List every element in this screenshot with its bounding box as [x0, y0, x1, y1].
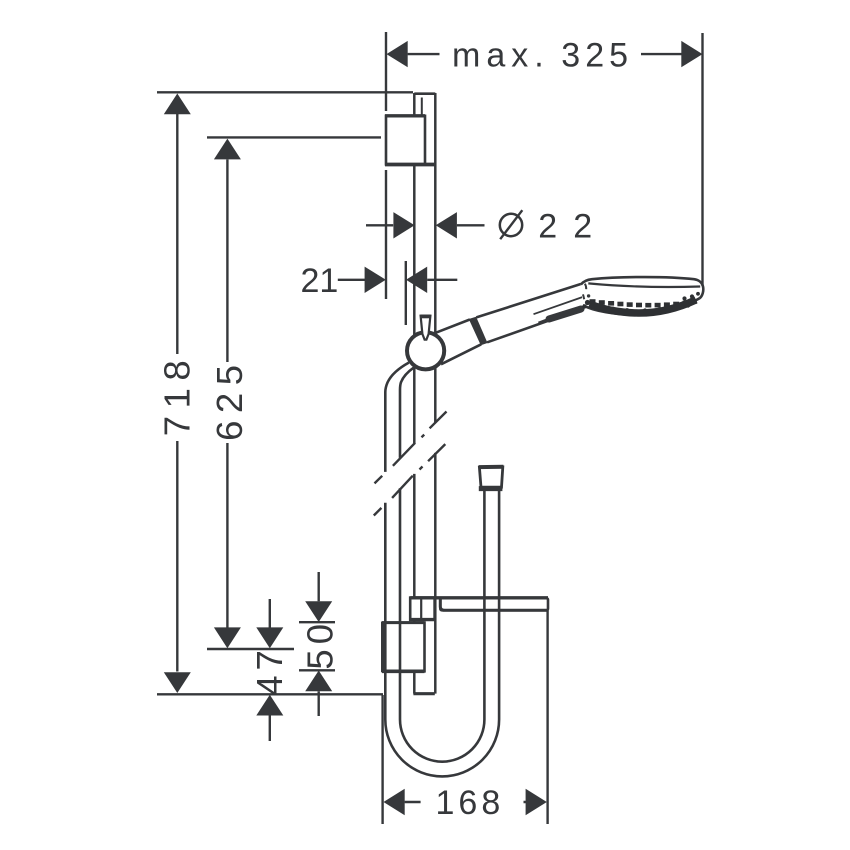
dimension 625 bottom extension line	[207, 648, 294, 650]
handle inner seam line	[534, 296, 586, 314]
dimension 168 line and arrows	[384, 789, 547, 815]
svg-text:168: 168	[436, 784, 505, 822]
dimension 47 label (rotated)	[249, 645, 290, 696]
hand shower handle shaft	[476, 283, 582, 342]
top wall bracket block	[385, 116, 436, 165]
handle select button	[539, 309, 582, 323]
bottom wall bracket block	[382, 622, 425, 672]
svg-text:50: 50	[300, 619, 341, 670]
dimension 47 upper line and arrow	[256, 599, 283, 648]
dimension 21 extension line (holder face)	[405, 261, 407, 325]
shower head neck joint	[583, 284, 590, 300]
dimension 168 label	[436, 784, 505, 822]
dimension 625 line and arrows	[214, 139, 241, 649]
dimension 718 line and arrows	[164, 94, 191, 694]
hand shower grip separator band	[470, 317, 487, 344]
shower head face bottom outline	[583, 298, 700, 315]
spray face nozzle band	[582, 292, 700, 313]
slider locking pin	[420, 316, 430, 340]
dimension Ø22 line and arrows	[366, 212, 485, 238]
dimension 50 upper line and arrow	[305, 572, 332, 622]
dimension 718 bottom extension line	[157, 693, 383, 695]
rail top cap	[414, 94, 435, 116]
dimension 718 top extension line	[157, 91, 413, 93]
shelf collar on rail	[409, 598, 436, 620]
dimension 625 top extension line	[207, 136, 381, 138]
dimension 21 label	[301, 262, 339, 300]
break mark diagonal 2	[374, 444, 446, 515]
dimension 168 extension line right	[546, 611, 548, 825]
svg-text:718: 718	[156, 353, 197, 436]
hand shower holder cone	[436, 320, 482, 365]
dimension max.325 extension line left	[385, 32, 387, 299]
dimension 50 extension segments	[299, 622, 335, 670]
dimension 168 extension line left	[381, 695, 383, 824]
hose conical end fitting	[479, 467, 504, 489]
dimension max.325 label	[452, 36, 633, 74]
dimension 21 line and arrows	[338, 267, 458, 293]
dimension Ø22 label	[0, 0, 1, 1]
dimension max.325 line and arrows	[387, 41, 703, 67]
break mark diagonal 1	[375, 412, 447, 484]
svg-text:325: 325	[561, 36, 633, 74]
svg-text:625: 625	[209, 357, 250, 440]
svg-text:21: 21	[301, 262, 339, 300]
svg-text:max.: max.	[452, 36, 550, 74]
wall bar rail left edge	[413, 93, 416, 694]
svg-text:22: 22	[538, 208, 608, 246]
rail bottom end	[413, 692, 434, 695]
dimension 718 label (rotated)	[156, 353, 197, 436]
dimension 625 label (rotated)	[209, 357, 250, 440]
soap shelf bar	[410, 598, 548, 611]
dimension 47 lower line and arrow	[256, 695, 283, 741]
shower hose inner line	[400, 368, 484, 762]
wall bar rail right edge	[434, 93, 437, 694]
dimension 50 label (rotated)	[300, 619, 341, 670]
dimension 50 lower line and arrow	[305, 671, 332, 717]
svg-text:47: 47	[249, 645, 290, 696]
slider knob circle	[407, 332, 444, 369]
dimension max.325 extension line right	[701, 33, 703, 286]
shower head body fill	[581, 277, 703, 315]
shower hose outer line (left branch, U-bend, right branch)	[385, 363, 499, 777]
shower head top outline	[581, 277, 703, 298]
shower head rim lower line	[588, 283, 700, 287]
